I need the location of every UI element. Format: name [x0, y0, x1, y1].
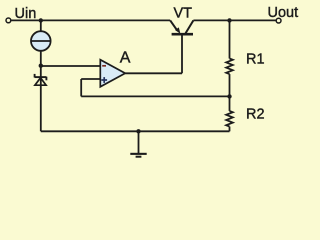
- svg-text:VT: VT: [174, 5, 193, 21]
- transistor VT (PNP pass transistor): [170, 20, 193, 34]
- wire: non-inverting input stub: [81, 78, 100, 80]
- node: junction rail / R1: [227, 18, 231, 22]
- resistor R2 (zigzag): [226, 111, 233, 127]
- wire: up to transistor base: [181, 35, 183, 73]
- wire: zener node to op-amp inverting input: [41, 65, 101, 67]
- collector diagonal: [186, 20, 194, 33]
- node: ground junction: [136, 129, 140, 133]
- emitter diagonal with arrow: [170, 20, 177, 30]
- wire: top rail from Uin terminal to transistor emitter: [11, 19, 171, 21]
- svg-text:R2: R2: [246, 106, 265, 122]
- node: zener / op-amp minus input: [39, 63, 43, 67]
- wire: bottom rail: [41, 130, 230, 132]
- current source I1 (circle with horizontal bar): [31, 31, 51, 51]
- wire: R1 to divider node: [229, 74, 231, 96]
- wire: op-amp output: [125, 72, 182, 74]
- svg-text:Uin: Uin: [15, 6, 37, 22]
- svg-text:A: A: [120, 50, 131, 67]
- base bar: [172, 33, 193, 36]
- wire: R2 to bottom rail: [229, 127, 231, 132]
- wire: collector to Uout terminal: [193, 19, 276, 21]
- zener diode VD1: [35, 74, 47, 85]
- resistor R1 (zigzag): [226, 59, 233, 75]
- wire: down to R1: [229, 20, 231, 58]
- wire: divider node to R2: [229, 96, 231, 111]
- node: divider junction R1/R2: [227, 94, 231, 98]
- svg-text:R1: R1: [246, 52, 265, 68]
- wire: down to ground: [138, 131, 140, 153]
- wire: zener node down through diode to bottom rail: [40, 66, 42, 131]
- ground: [130, 153, 146, 158]
- wire: current source down to zener node: [40, 51, 42, 66]
- wire: feedback horizontal from divider: [81, 95, 229, 97]
- node: junction Uin rail / current source: [39, 18, 43, 22]
- op-amp A: [100, 60, 125, 87]
- svg-text:Uout: Uout: [268, 5, 299, 21]
- wire: junction down to current source: [40, 20, 42, 31]
- terminal Uout: [276, 18, 281, 23]
- minus sign (inverting input): [102, 65, 106, 67]
- terminal Uin: [6, 18, 11, 23]
- plus sign (non-inverting input): [101, 79, 107, 81]
- wire: feedback vertical: [80, 79, 82, 96]
